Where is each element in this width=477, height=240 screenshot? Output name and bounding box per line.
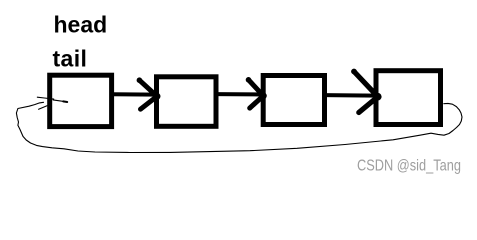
svg-text:head: head bbox=[54, 11, 108, 37]
svg-text:tail: tail bbox=[53, 46, 88, 72]
svg-text:CSDN @sid_Tang: CSDN @sid_Tang bbox=[357, 158, 461, 175]
